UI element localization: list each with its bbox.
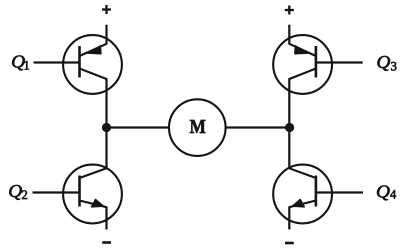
wire Q1 base — [34, 61, 80, 63]
svg-text:2: 2 — [22, 188, 28, 202]
label Q3 — [376, 52, 396, 74]
node B (right motor terminal junction) — [285, 123, 294, 132]
svg-text:4: 4 — [390, 187, 397, 201]
transistor Q1 (PNP, emitter to V+) — [63, 35, 122, 94]
transistor Q3 (PNP, emitter to V+) — [273, 35, 332, 94]
wire V+ to Q3 emitter — [288, 25, 290, 45]
wire V+ to Q1 emitter — [105, 25, 107, 45]
wire Q1 collector to node A — [105, 78, 107, 128]
label Q1 — [11, 51, 30, 72]
transistor Q2 (NPN, emitter to V-) — [63, 165, 122, 224]
V- supply symbol (right) — [285, 242, 294, 245]
wire motor to node B — [225, 126, 289, 128]
label Q2 — [8, 181, 27, 202]
wire node A to motor — [107, 126, 170, 128]
label Q4 — [376, 182, 397, 202]
wire Q3 base — [316, 61, 363, 63]
V+ supply symbol (left) — [102, 5, 111, 14]
svg-text:Q: Q — [376, 52, 390, 72]
svg-text:M: M — [190, 116, 206, 138]
V+ supply symbol (right) — [285, 6, 294, 15]
svg-text:1: 1 — [24, 59, 30, 73]
svg-text:Q: Q — [376, 182, 390, 202]
wire Q4 base — [316, 191, 363, 193]
svg-text:3: 3 — [391, 60, 397, 74]
wire node A to Q2 collector — [105, 128, 107, 170]
wire Q2 emitter to V- — [105, 207, 107, 230]
wire Q3 collector to node B — [288, 78, 290, 128]
wire Q2 base — [33, 191, 80, 193]
wire node B to Q4 collector — [288, 128, 290, 170]
wire Q4 emitter to V- — [288, 207, 290, 230]
V- supply symbol (left) — [102, 241, 111, 244]
node A (left motor terminal junction) — [102, 123, 111, 132]
transistor Q4 (NPN, emitter to V-) — [273, 165, 332, 224]
motor M — [169, 99, 226, 156]
svg-text:Q: Q — [8, 181, 22, 201]
